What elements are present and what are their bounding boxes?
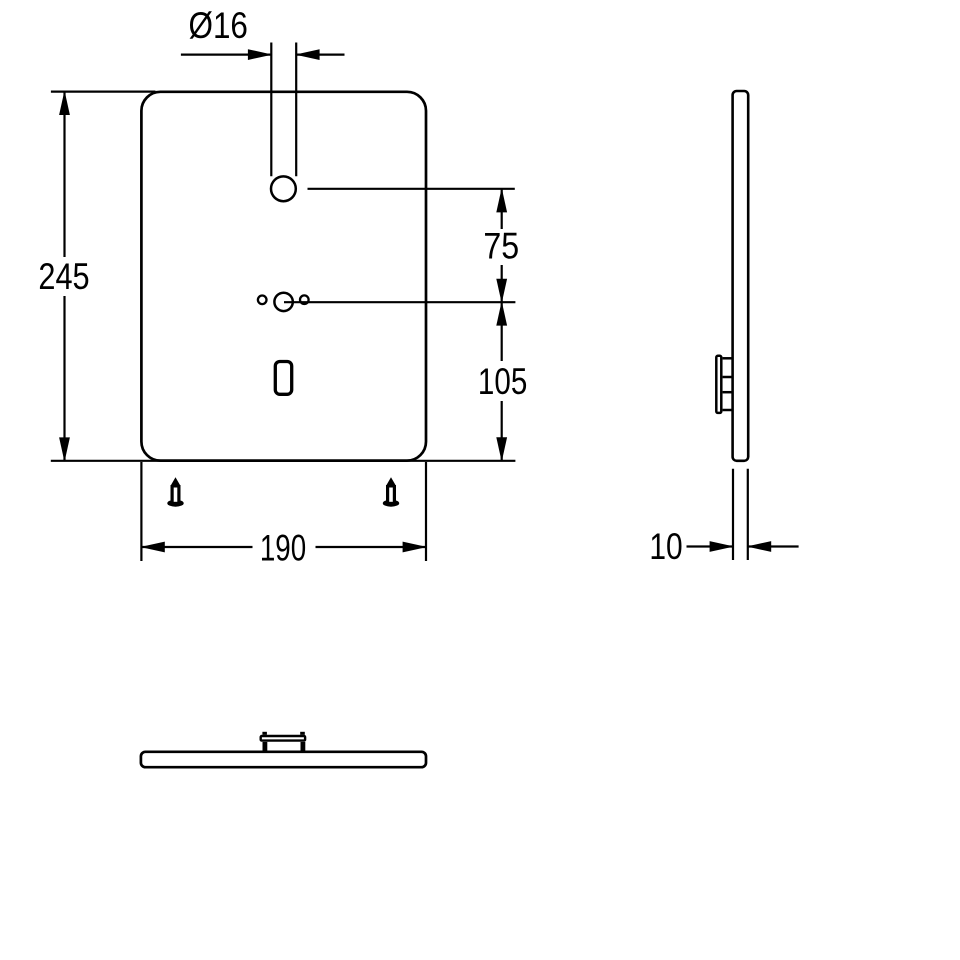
svg-text:75: 75 [483,227,519,268]
dim D16 extension line right [295,43,297,177]
screw left [167,477,183,506]
svg-text:10: 10 [649,527,682,568]
dim 75 arrow bottom [496,279,507,304]
dim 10 line right segment [748,545,799,547]
dim 190 extension line left [140,462,142,561]
dim 10 line left segment [687,545,734,547]
dim 75/105 line segment c [501,401,503,461]
dim 245 extension line top [51,90,156,92]
dim 10 arrow right [747,541,772,552]
side view boss rung 1 [723,357,733,360]
dim D16 arrow right [295,49,320,60]
dim D16 arrow left [248,49,273,60]
side view boss rung 2 [723,376,733,379]
dim 245 line upper segment [63,92,65,257]
dim 75/105 line segment b [501,265,503,361]
side view boss rung 4 [723,409,733,412]
dim 10 arrow left [710,541,735,552]
svg-text:105: 105 [478,362,527,403]
dim 190 arrow left [140,542,165,553]
leader line from top hole [308,188,515,190]
bottom view boss leg right [301,742,306,752]
dim 75 arrow top [496,188,507,213]
dim D16 extension line left [270,43,272,177]
dim 75/105 line segment a [501,189,503,229]
bottom view plate outline [141,752,426,767]
dim 190 arrow right [403,542,428,553]
side view plate outline [733,91,749,461]
bottom view boss nub right [300,732,305,735]
middle hole main circle [274,293,292,311]
leader line from middle hole [284,301,515,303]
side view boss cap [716,356,721,413]
dim 245 arrow top [59,91,70,116]
side view boss rung 3 [723,391,733,394]
dim 245 / bottom extension line long [51,460,516,462]
dim D16 line left segment [181,53,271,55]
bottom view boss cap [261,736,305,741]
dim 190 line right segment [316,546,427,548]
hole D16 top circle [271,176,296,201]
dim 245 line lower segment [63,296,65,461]
svg-text:Ø16: Ø16 [188,6,247,47]
middle small hole right [300,295,309,304]
middle small hole left [258,296,267,305]
screw right [383,477,399,506]
dim 10 extension line left [732,469,734,560]
bottom view boss leg left [263,742,268,752]
dim D16 line right segment [296,53,344,55]
dim 190 line left segment [141,546,252,548]
sensor window [275,362,291,395]
dim 190 extension line right [425,462,427,561]
front view plate outline [141,92,426,461]
dim 105 arrow bottom [496,437,507,462]
svg-text:245: 245 [38,256,89,297]
dim 10 extension line right [747,469,749,560]
dim 105 arrow top [496,301,507,326]
dim 245 arrow bottom [59,437,70,462]
bottom view boss nub left [262,732,267,735]
svg-text:190: 190 [260,527,306,569]
